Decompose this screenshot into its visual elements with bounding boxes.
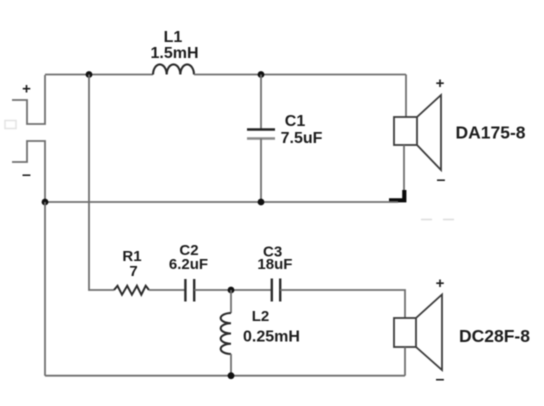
svg-text:18uF: 18uF — [257, 256, 292, 273]
resistor R1 — [114, 286, 149, 295]
wire C1 lower lead — [260, 139, 262, 203]
svg-text:1.5mH: 1.5mH — [150, 45, 198, 62]
wire DA175-8 lower lead — [403, 145, 405, 194]
svg-text:6.2uF: 6.2uF — [169, 256, 208, 273]
svg-text:7.5uF: 7.5uF — [281, 130, 323, 147]
node junction dot top-left — [86, 71, 93, 78]
capacitor C2 — [185, 279, 194, 302]
wire R1 to C2 — [149, 289, 185, 291]
wire bottom rail — [45, 375, 405, 377]
svg-text:L1: L1 — [164, 29, 183, 46]
svg-text:–: – — [436, 371, 445, 388]
speaker U2 DC28F-8 — [394, 295, 442, 371]
wire middle rail — [45, 201, 398, 203]
svg-text:0.25mH: 0.25mH — [243, 329, 300, 346]
svg-text:7: 7 — [129, 263, 137, 280]
node junction dot at C1 bottom — [258, 199, 265, 206]
svg-text:DC28F-8: DC28F-8 — [459, 326, 530, 346]
svg-text:+: + — [436, 275, 445, 292]
wire C3 to DC28F-8 — [280, 290, 405, 318]
svg-text:+: + — [436, 75, 445, 92]
wire R1 branch drop — [89, 75, 114, 291]
svg-text:C1: C1 — [285, 113, 306, 130]
capacitor C1 — [247, 130, 275, 139]
svg-text:+: + — [22, 81, 31, 98]
node junction dot L2 top — [228, 287, 235, 294]
faint dashes artifact — [421, 219, 454, 221]
node junction dot mid-left — [42, 199, 49, 206]
inductor L1 — [153, 64, 194, 74]
input terminal + (positive) — [12, 75, 45, 124]
wire L2 lower lead — [230, 354, 232, 376]
faint artifact box — [5, 121, 16, 129]
wire thick corner elbow — [389, 190, 404, 200]
input terminal - (negative) — [12, 141, 45, 202]
svg-text:–: – — [22, 167, 31, 184]
wire L2 upper lead — [230, 290, 232, 313]
wire left drop — [44, 202, 46, 376]
svg-text:–: – — [437, 172, 446, 189]
wire top rail left segment — [45, 74, 153, 76]
node junction dot at C1 top — [258, 71, 265, 78]
wire DC28F-8 lower lead — [404, 347, 406, 376]
speaker U1 DA175-8 — [394, 95, 441, 170]
wire top rail right segment — [194, 74, 406, 76]
inductor L2 — [221, 313, 231, 354]
wire C1 upper lead — [260, 75, 262, 130]
svg-text:L2: L2 — [252, 308, 270, 325]
capacitor C3 — [272, 279, 280, 302]
node junction dot bottom — [228, 372, 235, 379]
svg-text:DA175-8: DA175-8 — [455, 123, 525, 143]
wire right drop to DA175-8 — [405, 75, 407, 118]
wire C2 to node — [194, 289, 272, 291]
